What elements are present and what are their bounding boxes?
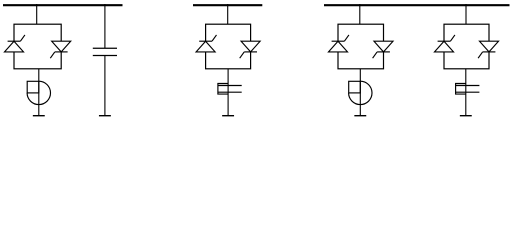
wire bus1 to valve box 1 xyxy=(36,4,38,24)
thyristor 3-left (conducts up) xyxy=(329,35,349,52)
switched capacitor C4 (capacitor with damping box) xyxy=(456,84,480,95)
thyristor valve box 4 xyxy=(444,24,489,69)
wire through capacitor C2 to ground xyxy=(227,84,229,116)
thyristor 4-right (conducts down) xyxy=(478,41,498,58)
wire through reactor L3 to ground xyxy=(359,81,361,115)
thyristor 2-right (conducts down) xyxy=(240,41,260,58)
thyristor valve box 3 xyxy=(338,24,384,69)
bus bar 2 (TSC) xyxy=(193,4,262,6)
thyristor 4-left (conducts up) xyxy=(435,35,455,52)
reactor L3 (3/4 circle with quadrant box) xyxy=(349,81,372,104)
thyristor 3-right (conducts down) xyxy=(373,41,393,58)
bus bar 1 (FC-TCR) xyxy=(3,4,123,6)
wire valve box 4 to capacitor C4 xyxy=(465,69,467,84)
thyristor valve box 1 xyxy=(14,24,61,69)
thyristor 2-left (conducts up) xyxy=(196,35,216,52)
bus bar 3 (TCR+TSC) xyxy=(324,4,510,6)
switched capacitor C2 (capacitor with damping box) xyxy=(218,84,242,95)
ground bar below C2 xyxy=(222,115,234,117)
thyristor valve box 2 xyxy=(206,24,251,69)
reactor L1 (3/4 circle with quadrant box) xyxy=(27,81,50,104)
wire through reactor L1 to ground xyxy=(38,81,40,115)
wire capacitor C1 to ground xyxy=(104,56,106,116)
wire bus3 to valve box 4 xyxy=(465,4,467,24)
thyristor 1-left (conducts up) xyxy=(5,35,25,52)
wire bus3 to valve box 3 xyxy=(359,4,361,24)
wire valve box 3 to reactor L3 xyxy=(359,69,361,82)
fixed capacitor C1 xyxy=(93,48,117,55)
ground bar below C1 xyxy=(99,115,111,117)
wire valve box 1 to reactor L1 xyxy=(38,69,40,82)
wire valve box 2 to capacitor C2 xyxy=(227,69,229,84)
wire bus1 to fixed capacitor C1 xyxy=(104,4,106,48)
ground bar below L3 xyxy=(354,115,366,117)
wire through capacitor C4 to ground xyxy=(465,84,467,116)
ground bar below L1 xyxy=(33,115,45,117)
ground bar below C4 xyxy=(460,115,472,117)
thyristor 1-right (conducts down) xyxy=(50,41,70,58)
wire bus2 to valve box 2 xyxy=(227,4,229,24)
